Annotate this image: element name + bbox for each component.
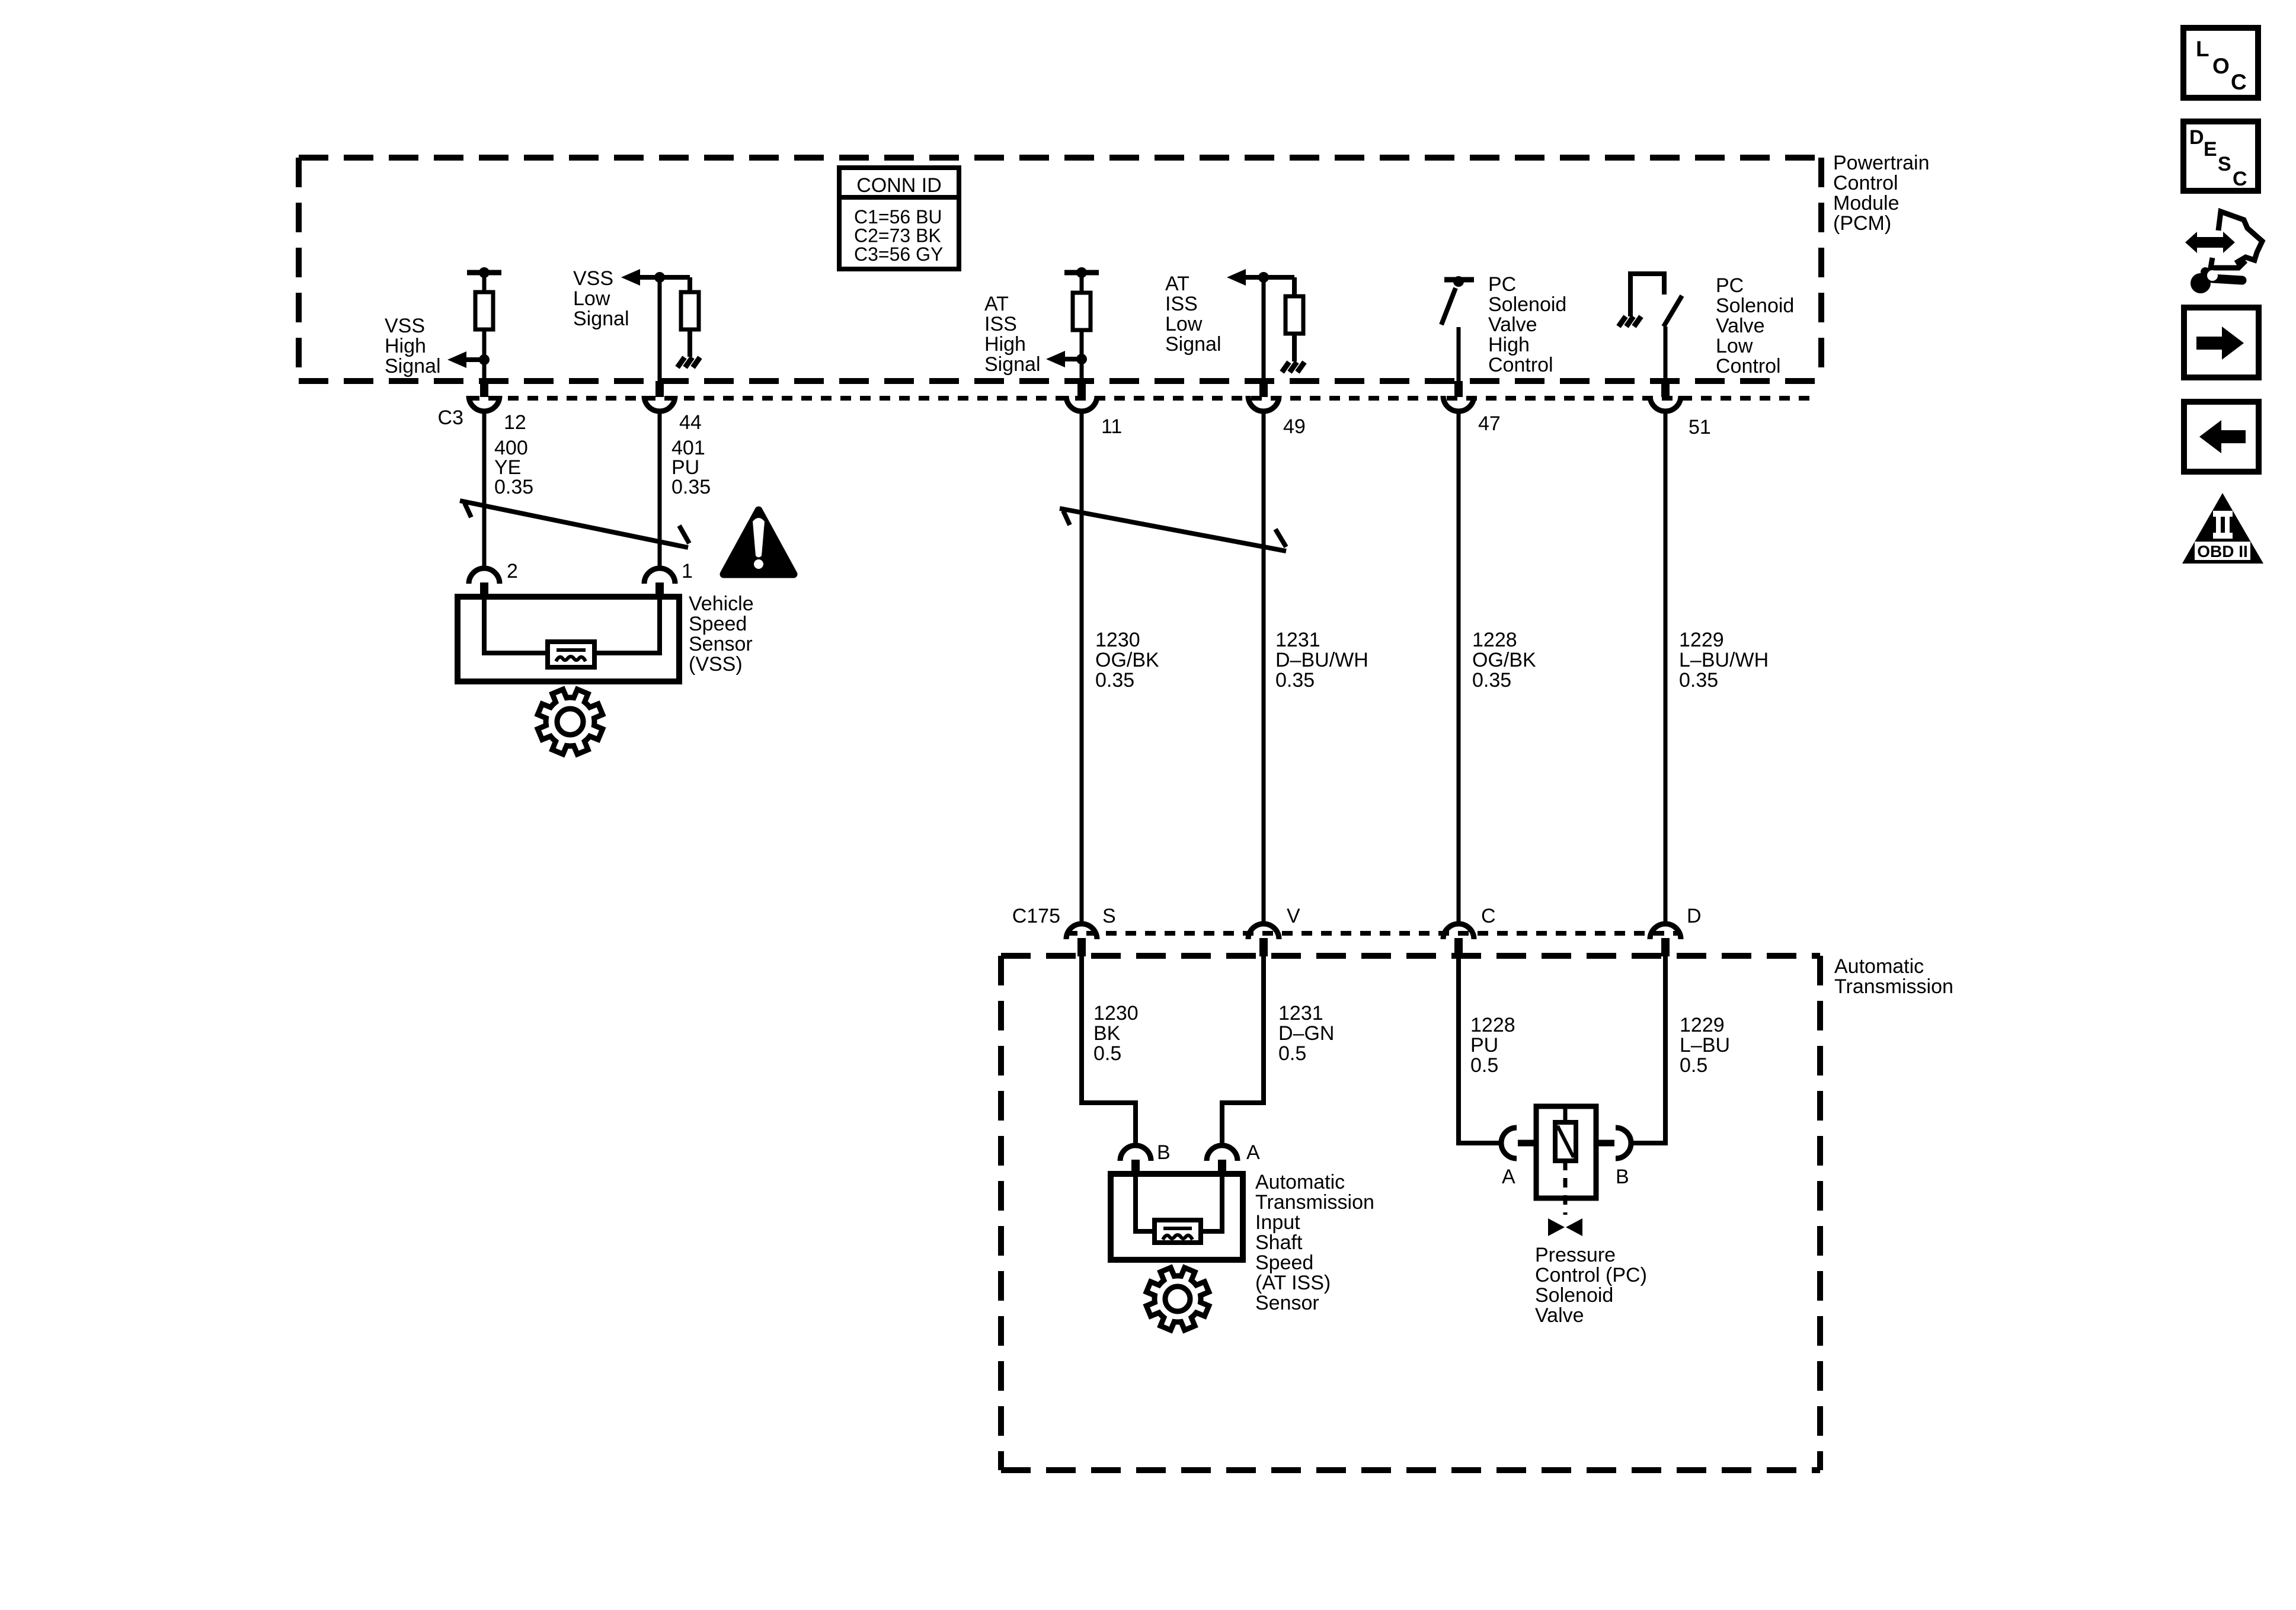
svg-text:1: 1 bbox=[682, 560, 693, 582]
wire: arrow tail AT ISS High bbox=[1065, 357, 1082, 361]
wire 400 YE: pin 12 to VSS pin 2 bbox=[482, 414, 487, 567]
PCM (Powertrain Control Module) dashed box bbox=[299, 158, 1821, 381]
svg-text:C: C bbox=[1481, 905, 1496, 927]
wire 1230 BK: C175 S to ATISS B bbox=[1082, 956, 1136, 1144]
node: VSS low junction dot bbox=[654, 272, 665, 283]
wire: PC high vertical to pin 47 bbox=[1457, 327, 1461, 381]
svg-text:A: A bbox=[1246, 1141, 1260, 1164]
ATISS pin A connector arc bbox=[1207, 1145, 1237, 1161]
VSS pin 2 connector arc bbox=[469, 568, 500, 584]
pin 47 stub bbox=[1454, 381, 1463, 397]
C175 pin S connector arc bbox=[1066, 924, 1097, 939]
svg-text:C: C bbox=[2231, 70, 2247, 94]
ground: pin 51 hook bbox=[1619, 316, 1626, 327]
wire: resistor to ground bbox=[1292, 334, 1297, 361]
wire 1231 D-GN: C175 V to ATISS A bbox=[1222, 956, 1264, 1144]
wire 1228 OG/BK: pin 47 down bbox=[1457, 414, 1461, 923]
wire inside ATISS left bbox=[1136, 1175, 1157, 1231]
pin 49 connector arc bbox=[1248, 396, 1279, 411]
wire 1230 OG/BK: pin 11 to C175 S bbox=[1080, 414, 1084, 923]
twisted pair mark (VSS wires) bbox=[460, 501, 689, 548]
svg-text:2: 2 bbox=[507, 560, 518, 582]
AT ISS sensor box bbox=[1111, 1174, 1243, 1260]
wire inside ATISS right bbox=[1198, 1175, 1222, 1231]
svg-text:E: E bbox=[2204, 138, 2217, 161]
svg-text:11: 11 bbox=[1101, 415, 1122, 438]
CONN ID table bbox=[839, 168, 959, 269]
arrow: AT ISS Low Signal bbox=[1227, 269, 1246, 286]
Automatic Transmission dashed box bbox=[1001, 956, 1820, 1470]
resistor: VSS low pull-down bbox=[681, 292, 699, 329]
wire: VSS high vertical inside PCM bbox=[482, 273, 487, 381]
ground: AT ISS low bbox=[1282, 362, 1289, 372]
valve solenoid inner rect bbox=[1555, 1122, 1576, 1161]
valve inner stem top bbox=[1563, 1108, 1568, 1124]
valve pin B bar bbox=[1576, 1140, 1614, 1147]
svg-text:C3: C3 bbox=[438, 406, 463, 429]
ground hook pin 51 bbox=[1630, 274, 1664, 316]
svg-text:51: 51 bbox=[1689, 416, 1711, 438]
resistor: AT ISS low bbox=[1285, 296, 1303, 334]
pin 47 connector arc bbox=[1443, 396, 1474, 411]
wire: PC low vertical to pin 51 bbox=[1664, 327, 1668, 381]
pin 51 connector arc bbox=[1650, 396, 1681, 411]
arrow: AT ISS High Signal bbox=[1046, 351, 1065, 367]
pin 11 connector arc bbox=[1066, 396, 1097, 411]
switch arm pin 51 bbox=[1664, 296, 1682, 327]
svg-text:CONN ID: CONN ID bbox=[856, 174, 942, 197]
wire inside VSS right bbox=[593, 598, 660, 653]
wire inside VSS left bbox=[484, 598, 550, 653]
svg-text:D: D bbox=[2189, 126, 2204, 149]
resistor: AT ISS high bbox=[1073, 293, 1091, 330]
DESC icon box bbox=[2183, 121, 2258, 191]
connector C3 dotted line bbox=[469, 396, 1814, 401]
valve inner diagonal bbox=[1558, 1126, 1574, 1157]
gear icon (AT ISS) bbox=[1146, 1267, 1208, 1330]
pin 11 stub bbox=[1077, 381, 1086, 397]
pin 44 stub bbox=[655, 381, 664, 397]
node: AT ISS High terminal bar bbox=[1064, 270, 1099, 276]
svg-text:47: 47 bbox=[1478, 412, 1501, 435]
node: AT ISS low junction dot bbox=[1258, 272, 1269, 283]
vehicle/wrench icon bbox=[2211, 212, 2262, 268]
VSS pickup coil element bbox=[548, 642, 594, 667]
svg-text:49: 49 bbox=[1283, 415, 1306, 438]
wire: AT ISS low horizontal bbox=[1246, 275, 1294, 280]
svg-text:C175: C175 bbox=[1012, 905, 1060, 927]
PC solenoid valve box bbox=[1536, 1106, 1596, 1198]
switch arm pin 47 bbox=[1441, 288, 1456, 325]
wire: VSS low vertical to pin 44 bbox=[658, 277, 662, 381]
ground: VSS low bbox=[677, 357, 685, 367]
pin 49 stub bbox=[1259, 381, 1268, 397]
svg-text:12: 12 bbox=[504, 411, 526, 434]
svg-text:S: S bbox=[2218, 153, 2231, 175]
svg-text:C: C bbox=[2233, 168, 2247, 190]
arrow: VSS High Signal bbox=[447, 351, 466, 368]
wire: arrow tail VSS High Signal bbox=[466, 357, 484, 362]
ATISS pin B connector arc bbox=[1120, 1145, 1151, 1161]
wire: branch down to resistor bbox=[687, 277, 692, 295]
node: AT ISS high junction dot bbox=[1076, 354, 1087, 364]
left arrow icon box bbox=[2184, 402, 2259, 472]
wire: VSS low horizontal bbox=[640, 275, 690, 280]
valve pin B connector arc bbox=[1616, 1128, 1631, 1158]
wire 1229 L-BU/WH: pin 51 down bbox=[1664, 414, 1668, 923]
resistor: VSS high pull-up bbox=[475, 292, 493, 329]
node: VSS High Signal junction dot bbox=[479, 354, 490, 365]
pin 12 connector arc bbox=[469, 396, 500, 411]
right arrow icon box bbox=[2184, 308, 2259, 377]
wire 401 PU: pin 44 to VSS pin 1 bbox=[658, 414, 662, 567]
svg-text:L: L bbox=[2196, 37, 2209, 61]
LOC icon box bbox=[2183, 28, 2258, 98]
ATISS pickup coil element bbox=[1155, 1220, 1201, 1243]
switch contact bar pin 47 bbox=[1444, 277, 1474, 283]
gear icon (VSS) bbox=[538, 689, 602, 754]
valve bowtie symbol bbox=[1548, 1218, 1582, 1236]
pin 51 stub bbox=[1661, 381, 1670, 397]
wire 1229 L-BU: C175 D down to valve B bbox=[1630, 956, 1665, 1143]
C175 pin D connector arc bbox=[1650, 924, 1681, 939]
svg-text:S: S bbox=[1102, 905, 1116, 927]
svg-text:D: D bbox=[1687, 905, 1702, 927]
svg-text:O: O bbox=[2212, 54, 2230, 78]
svg-text:OBD II: OBD II bbox=[2197, 542, 2248, 561]
twisted pair mark (AT ISS wires) bbox=[1060, 508, 1286, 551]
C175 pin V connector arc bbox=[1248, 924, 1279, 939]
C175 pin C connector arc bbox=[1443, 924, 1474, 939]
wire: branch down to resistor bbox=[1292, 277, 1297, 298]
connector C175 dotted line bbox=[1067, 931, 1681, 936]
wire: AT ISS low vertical to pin 49 bbox=[1262, 277, 1266, 381]
pin 12 stub bbox=[480, 381, 488, 397]
svg-text:V: V bbox=[1287, 905, 1300, 927]
VSS sensor box bbox=[458, 597, 679, 681]
wire 1231 D-BU/WH: pin 49 to C175 V bbox=[1262, 414, 1266, 923]
wire 1228 PU: C175 C down to valve A bbox=[1459, 956, 1502, 1143]
arrow: VSS Low Signal bbox=[621, 269, 640, 286]
pin 44 connector arc bbox=[644, 396, 675, 411]
warning triangle symbol bbox=[724, 510, 794, 574]
svg-text:B: B bbox=[1616, 1166, 1629, 1188]
valve pin A connector arc bbox=[1501, 1128, 1517, 1158]
svg-text:C1=56 BUC2=73 BKC3=56 GY: C1=56 BUC2=73 BKC3=56 GY bbox=[854, 206, 943, 265]
VSS pin 1 connector arc bbox=[644, 568, 675, 584]
wire: resistor to ground bbox=[687, 329, 692, 357]
svg-text:B: B bbox=[1157, 1141, 1171, 1164]
svg-text:44: 44 bbox=[679, 411, 702, 434]
svg-text:A: A bbox=[1502, 1166, 1515, 1188]
valve dashed stem bbox=[1563, 1161, 1568, 1215]
valve pin A bar bbox=[1518, 1140, 1556, 1147]
wire: AT ISS high vertical in PCM bbox=[1080, 273, 1084, 381]
OBD II triangle icon bbox=[2182, 493, 2263, 564]
node: VSS High Signal terminal bar bbox=[467, 270, 501, 276]
